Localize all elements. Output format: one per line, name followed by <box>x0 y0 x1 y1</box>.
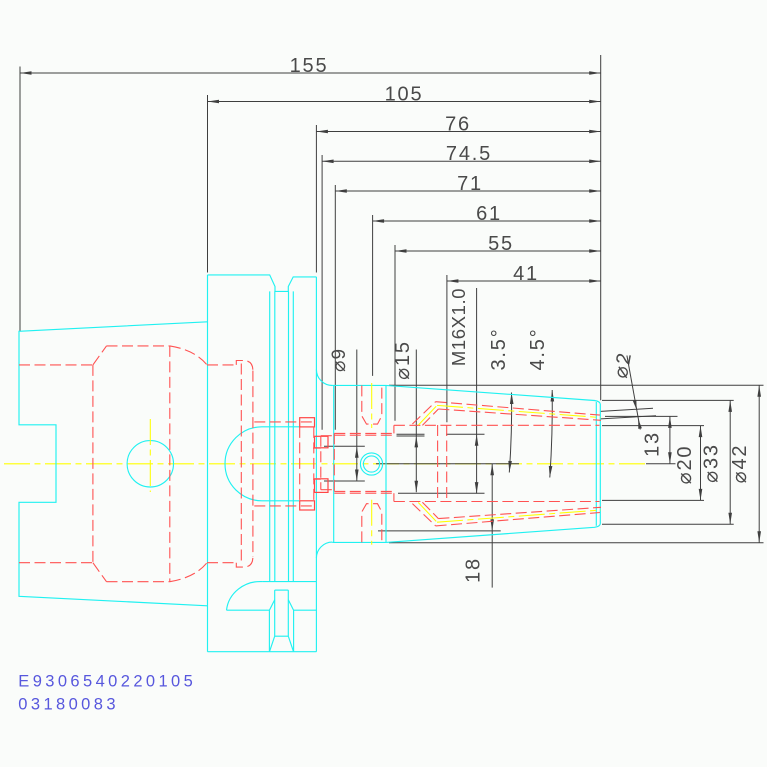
dimension M16X1.0 <box>398 288 485 494</box>
svg-text:M16X1.0: M16X1.0 <box>448 288 469 366</box>
dia15 bore hidden <box>321 436 335 490</box>
svg-text:18: 18 <box>463 557 485 583</box>
HSK taper shank outline <box>19 322 208 606</box>
dimension 61 <box>373 203 601 376</box>
coolant tube gland (sectioned) <box>300 418 328 510</box>
shank internal bore hidden lines <box>19 346 315 582</box>
svg-text:71: 71 <box>457 173 483 195</box>
centerline main axis <box>4 463 648 465</box>
dia20 bore hidden <box>394 425 600 501</box>
svg-text:4.5°: 4.5° <box>527 327 549 370</box>
dimension 71 <box>335 173 600 430</box>
flange groove projected lines <box>270 291 294 581</box>
collet nut outline <box>386 385 600 542</box>
svg-text:3.5°: 3.5° <box>488 327 510 370</box>
right extension line (nose face) <box>600 55 602 400</box>
flange outline with V-groove <box>208 275 317 652</box>
dia9 bore hidden <box>313 448 321 479</box>
radial hole circles on body <box>360 453 382 475</box>
svg-text:⌀15: ⌀15 <box>392 340 414 380</box>
radial set screw holes hidden <box>362 385 382 542</box>
dimension 41 <box>447 263 601 422</box>
svg-text:⌀20: ⌀20 <box>674 445 696 485</box>
svg-text:⌀42: ⌀42 <box>729 444 751 484</box>
dimension dia20 <box>602 426 704 501</box>
svg-text:⌀33: ⌀33 <box>701 443 723 483</box>
dimension 155 <box>20 55 601 331</box>
dimension 13 <box>605 416 678 463</box>
svg-text:74.5: 74.5 <box>446 143 492 165</box>
svg-text:⌀9: ⌀9 <box>329 348 350 372</box>
svg-text:105: 105 <box>385 83 424 105</box>
svg-text:⌀2: ⌀2 <box>610 350 636 380</box>
svg-text:155: 155 <box>290 55 329 77</box>
dimension 105 <box>208 83 601 272</box>
dimension 18 <box>376 464 519 588</box>
svg-text:41: 41 <box>513 263 539 285</box>
shank coolant circle <box>127 441 173 487</box>
dimension dia2 <box>601 350 657 430</box>
dimension dia9 <box>324 348 365 481</box>
svg-text:76: 76 <box>445 113 471 135</box>
coolant channel lower <box>412 502 601 526</box>
dimension 74.5 <box>322 143 601 430</box>
svg-text:61: 61 <box>476 203 502 225</box>
dimension dia33 <box>602 400 734 524</box>
dimension 55 <box>395 233 601 421</box>
svg-text:03180083: 03180083 <box>18 696 119 714</box>
angle leader 3.5deg <box>488 327 512 472</box>
dimension 76 <box>316 113 600 272</box>
flange drive slot (bottom) <box>227 582 317 652</box>
fillet flange to body <box>316 370 332 558</box>
vertical centerlines <box>150 383 371 545</box>
coolant tube bullet <box>225 427 300 501</box>
svg-text:E9306540220105: E9306540220105 <box>18 673 196 691</box>
coolant channel upper <box>412 402 601 426</box>
dimension dia42 <box>389 385 764 543</box>
dimension dia15 <box>392 340 425 492</box>
svg-text:55: 55 <box>488 233 514 255</box>
svg-text:13: 13 <box>642 431 664 457</box>
body cylinder dia42 <box>332 385 386 542</box>
angle leader 4.5deg <box>527 327 552 477</box>
collet back faces hidden <box>438 425 447 503</box>
M16 thread hidden <box>334 425 394 501</box>
